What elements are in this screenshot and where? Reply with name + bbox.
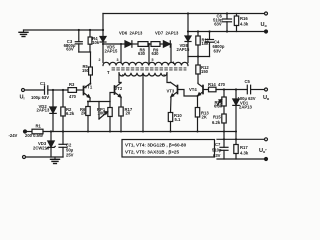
label R11 value bbox=[202, 37, 210, 46]
label C3 value bbox=[64, 39, 76, 52]
node dot input R2 bbox=[62, 89, 64, 91]
wire secondary left end to VT2 collector bbox=[119, 73, 121, 83]
node dot out wire RP2 bbox=[223, 88, 225, 90]
svg-text:4.3k: 4.3k bbox=[240, 22, 249, 27]
diode VD5 bbox=[100, 30, 106, 63]
label C4 value bbox=[213, 40, 225, 54]
svg-text:3: 3 bbox=[117, 58, 119, 62]
svg-text:4: 4 bbox=[122, 74, 124, 78]
label R12 value bbox=[201, 65, 209, 74]
diode VD6 bbox=[125, 41, 138, 47]
label R8 value bbox=[138, 47, 146, 56]
node dot snubber R11 bbox=[197, 55, 199, 57]
terminal Uo' top bbox=[265, 138, 268, 141]
node dot outblock C7 bbox=[223, 138, 225, 140]
capacitor C2 bbox=[59, 132, 67, 158]
wire C1 to R3 bbox=[48, 89, 67, 91]
node dot -24V VD3 bbox=[50, 130, 52, 132]
node dot rail2 VD8 bbox=[187, 30, 189, 32]
svg-text:2K: 2K bbox=[202, 114, 207, 119]
label VD3 zener bbox=[33, 141, 50, 150]
node dot -24V R15 bbox=[223, 131, 225, 133]
svg-text:-24V: -24V bbox=[9, 133, 18, 138]
wire VT4 base to R14 bbox=[204, 89, 209, 91]
node dot rail2 C4 bbox=[208, 30, 210, 32]
label R10 value bbox=[174, 113, 182, 122]
svg-text:6.8k: 6.8k bbox=[214, 104, 223, 109]
label VD5 bbox=[105, 45, 118, 54]
terminal -24V bbox=[24, 130, 27, 133]
node dot outblock R17b bbox=[235, 138, 237, 140]
transistor VT1 bbox=[84, 83, 91, 101]
wire input bbox=[25, 89, 44, 91]
wire C3/R4 bottom join bbox=[79, 51, 91, 53]
node dot rail1 C6 bbox=[226, 12, 228, 14]
svg-text:R14 470: R14 470 bbox=[208, 82, 226, 87]
svg-text:2AP15: 2AP15 bbox=[105, 48, 118, 53]
wire left rail bbox=[24, 29, 104, 31]
svg-text:VD6 2AP13: VD6 2AP13 bbox=[119, 31, 143, 36]
node dot tap5 bbox=[148, 43, 150, 45]
label R17 value bbox=[125, 107, 133, 116]
capacitor C1 bbox=[45, 86, 48, 94]
svg-text:VT4: VT4 bbox=[189, 87, 197, 92]
svg-text:2AP13: 2AP13 bbox=[239, 104, 252, 109]
label R5 value bbox=[82, 64, 90, 73]
terminal Ui bbox=[22, 89, 25, 92]
potentiometer RP1 bbox=[99, 102, 112, 132]
capacitor C6 bbox=[223, 14, 232, 32]
node dot -24V R17 bbox=[120, 131, 122, 133]
wire snubber bottom join bbox=[188, 56, 210, 58]
label C2 value bbox=[66, 143, 74, 158]
label R15 value bbox=[212, 115, 221, 126]
node dot left rail C3 bbox=[78, 29, 80, 31]
label C7 value bbox=[212, 142, 222, 158]
svg-text:20: 20 bbox=[126, 111, 131, 116]
wire R15/VD1 drop to output block bbox=[224, 132, 236, 140]
label VD1 bbox=[239, 101, 252, 110]
node dot -24V R13 bbox=[197, 131, 199, 133]
svg-text:630: 630 bbox=[152, 51, 160, 56]
svg-text:63V: 63V bbox=[213, 153, 221, 158]
node dot base jog R13 bbox=[197, 95, 199, 97]
transistor VT2 bbox=[115, 83, 122, 108]
label VD8 bbox=[177, 43, 190, 52]
node dot chain VD5 bbox=[102, 43, 104, 45]
wire diode chain left bbox=[103, 43, 125, 45]
resistor R2 bbox=[61, 90, 65, 132]
svg-text:10k: 10k bbox=[202, 41, 210, 46]
resistor R17b 4.3k bbox=[234, 139, 238, 159]
label RP1 value bbox=[97, 107, 106, 116]
resistor R10 bbox=[168, 113, 172, 132]
label C6 value bbox=[213, 13, 223, 26]
svg-text:R3: R3 bbox=[69, 82, 75, 87]
node dot left rail VD5 bbox=[102, 29, 104, 31]
svg-text:6.2k: 6.2k bbox=[212, 120, 221, 125]
wire rail2 (upper right) bbox=[188, 31, 266, 33]
zener diode VD3 bbox=[47, 132, 55, 158]
svg-text:63V: 63V bbox=[66, 47, 74, 52]
svg-text:VT2: VT2 bbox=[115, 86, 123, 91]
ground (bottom) bbox=[51, 157, 60, 164]
node dot -24V R10 bbox=[170, 131, 172, 133]
svg-text:150: 150 bbox=[201, 69, 209, 74]
resistor R1 bbox=[27, 129, 43, 134]
transformer core bbox=[112, 68, 186, 70]
wire bottom-left bbox=[26, 156, 63, 158]
svg-text:63V: 63V bbox=[214, 22, 222, 27]
resistor R4 bbox=[88, 30, 92, 52]
svg-text:VD7 2AP13: VD7 2AP13 bbox=[155, 31, 179, 36]
capacitor C4 bbox=[206, 32, 214, 57]
svg-text:6.2k: 6.2k bbox=[66, 111, 75, 116]
transformer T primary winding bbox=[103, 62, 188, 65]
node dot -24V C2 bbox=[62, 130, 64, 132]
node dot emitter bus R6 bbox=[87, 101, 89, 103]
wire chain end to transformer tap bbox=[170, 44, 172, 63]
svg-text:4.3k: 4.3k bbox=[240, 151, 249, 156]
svg-text:C5: C5 bbox=[245, 79, 251, 84]
resistor R17 (emitter) bbox=[119, 107, 123, 132]
wire rail1-to-left-rail riser bbox=[102, 14, 104, 31]
label R4 value bbox=[92, 36, 100, 45]
resistor R6 bbox=[86, 102, 90, 132]
diode VD2 bbox=[50, 90, 56, 132]
node dot -24V tap bbox=[142, 131, 144, 133]
svg-text:200 0.5W: 200 0.5W bbox=[25, 133, 43, 138]
label RP2 value bbox=[214, 100, 223, 109]
resistor R16 bbox=[234, 14, 238, 32]
wire transformer tap 5 riser bbox=[148, 44, 150, 63]
terminal 0V (bottom-left) bbox=[23, 156, 26, 159]
transistor VT3 (mirrored) bbox=[169, 82, 178, 112]
node dot tap3 bbox=[120, 43, 122, 45]
svg-text:VT2, VT5: 3AX31B , β>25: VT2, VT5: 3AX31B , β>25 bbox=[125, 150, 179, 155]
node dot rail1 VD8 bbox=[187, 12, 189, 14]
svg-text:100µ 63V: 100µ 63V bbox=[31, 95, 49, 100]
svg-text:2: 2 bbox=[99, 58, 101, 62]
diode VD1 bbox=[233, 90, 239, 132]
resistor R11 bbox=[196, 32, 200, 57]
potentiometer RP2 bbox=[217, 90, 226, 107]
svg-text:5.1: 5.1 bbox=[175, 117, 181, 122]
wire bottom output rail2 bbox=[217, 158, 266, 160]
resistor R14 bbox=[209, 87, 248, 92]
node dot -24V R6 bbox=[87, 131, 89, 133]
node dot input VD2 bbox=[52, 89, 54, 91]
svg-text:C7: C7 bbox=[215, 142, 221, 147]
node dot left rail R4 bbox=[89, 29, 91, 31]
label R2 value bbox=[66, 107, 75, 116]
resistor R13 bbox=[195, 108, 199, 132]
svg-text:2: 2 bbox=[163, 74, 165, 78]
label R13 value bbox=[201, 111, 209, 120]
wire VT3 base jog bbox=[178, 90, 198, 97]
svg-text:R15: R15 bbox=[213, 115, 221, 120]
capacitor C3 bbox=[75, 30, 82, 52]
svg-text:5: 5 bbox=[152, 58, 154, 62]
resistor R15 bbox=[222, 106, 226, 132]
note box bbox=[122, 140, 215, 158]
resistor R3 bbox=[68, 88, 84, 93]
svg-text:510p: 510p bbox=[212, 148, 222, 153]
svg-text:VT1, VT4: 3DG12B , β=60-80: VT1, VT4: 3DG12B , β=60-80 bbox=[125, 143, 187, 148]
node dot -24V VD1 bbox=[235, 131, 237, 133]
resistor R5 bbox=[89, 52, 93, 84]
label C5 value bbox=[238, 79, 256, 101]
svg-text:C1: C1 bbox=[40, 81, 46, 86]
svg-text:VT3: VT3 bbox=[167, 89, 175, 94]
svg-text:150: 150 bbox=[82, 68, 90, 73]
ground (top-left) bbox=[19, 30, 28, 37]
node dot -24V RP1 bbox=[109, 131, 111, 133]
capacitor C7 bbox=[220, 139, 228, 159]
node dot rail2 C6 bbox=[226, 30, 228, 32]
resistor R9 bbox=[151, 42, 163, 47]
wire bottom output rail1 bbox=[217, 138, 266, 140]
wire -24V rail bbox=[43, 131, 236, 133]
label R6 value bbox=[80, 107, 86, 116]
terminal Uo- bbox=[265, 30, 268, 33]
wire transformer tap 3 riser bbox=[120, 44, 122, 63]
label VD2 bbox=[37, 104, 50, 113]
svg-text:2CW21J: 2CW21J bbox=[33, 145, 50, 150]
label R3 value bbox=[69, 82, 77, 99]
resistor R12 bbox=[196, 57, 200, 84]
svg-text:2k: 2k bbox=[81, 111, 86, 116]
label R17b value bbox=[240, 145, 249, 156]
wire secondary right end to VT3 collector bbox=[167, 73, 169, 83]
svg-text:T: T bbox=[107, 70, 110, 75]
svg-text:10k: 10k bbox=[92, 40, 100, 45]
label R16 value bbox=[240, 16, 249, 27]
diode VD8 bbox=[185, 14, 191, 63]
wire VT1 emitter bus bbox=[88, 101, 110, 103]
resistor R8 bbox=[138, 42, 151, 47]
node dot out wire VD1 bbox=[235, 88, 237, 90]
svg-text:R17: R17 bbox=[240, 145, 248, 150]
transistor VT4 (mirrored) bbox=[198, 83, 204, 108]
svg-text:R1: R1 bbox=[36, 124, 42, 129]
svg-text:630: 630 bbox=[138, 51, 146, 56]
label C1 value bbox=[31, 81, 49, 100]
svg-text:470: 470 bbox=[69, 94, 77, 99]
capacitor C5 bbox=[247, 85, 264, 94]
svg-text:VT1: VT1 bbox=[85, 85, 93, 90]
wire top rail (rail1) bbox=[103, 13, 266, 15]
label R9 value bbox=[152, 47, 160, 56]
terminal Uo+ bbox=[265, 12, 268, 15]
wire secondary centre tap bbox=[142, 75, 144, 132]
svg-text:25V: 25V bbox=[66, 153, 74, 158]
terminal Uo' bottom bbox=[265, 158, 268, 161]
svg-text:R16: R16 bbox=[240, 16, 248, 21]
wire VT2 base riser bbox=[110, 93, 115, 102]
diode VD7 bbox=[163, 41, 171, 47]
svg-text:2AP13: 2AP13 bbox=[37, 108, 50, 113]
node dot rail2 R11 bbox=[197, 30, 199, 32]
svg-text:2AP15: 2AP15 bbox=[177, 47, 190, 52]
transformer T secondary winding bbox=[119, 73, 167, 76]
terminal Ua bbox=[265, 88, 268, 91]
svg-text:63V: 63V bbox=[214, 49, 222, 54]
svg-text:1: 1 bbox=[173, 61, 175, 65]
svg-text:100: 100 bbox=[98, 111, 106, 116]
svg-text:100µ 63V: 100µ 63V bbox=[238, 96, 256, 101]
